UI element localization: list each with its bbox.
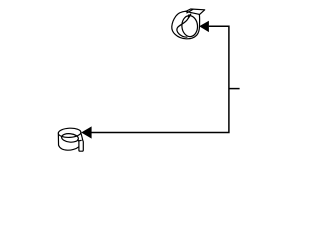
front rim ellipse [181, 15, 198, 37]
seam tick near tab [78, 140, 79, 142]
band edge tick below tab [187, 15, 190, 17]
left wall and bottom of band [58, 134, 78, 150]
tab top edge [79, 139, 81, 141]
tab fold line [187, 9, 193, 13]
node tick on vertical wire [229, 88, 240, 90]
outer top rim ellipse [58, 128, 81, 138]
arrowhead to clamp A [199, 21, 209, 32]
tab (band end) [186, 9, 205, 14]
right wall down to tab [81, 133, 83, 140]
seam curve (band overlap) [177, 14, 191, 37]
outer silhouette [172, 11, 200, 39]
inner opening ellipse [61, 133, 79, 143]
clamp A (upper hose clamp) [172, 9, 205, 39]
clamp B (lower hose clamp) [58, 128, 83, 152]
arrowhead to clamp B [81, 126, 91, 138]
band end tab [79, 140, 83, 151]
wire: leader from clamp A arrow, right then down, then left to clamp B arrow [91, 26, 239, 132]
